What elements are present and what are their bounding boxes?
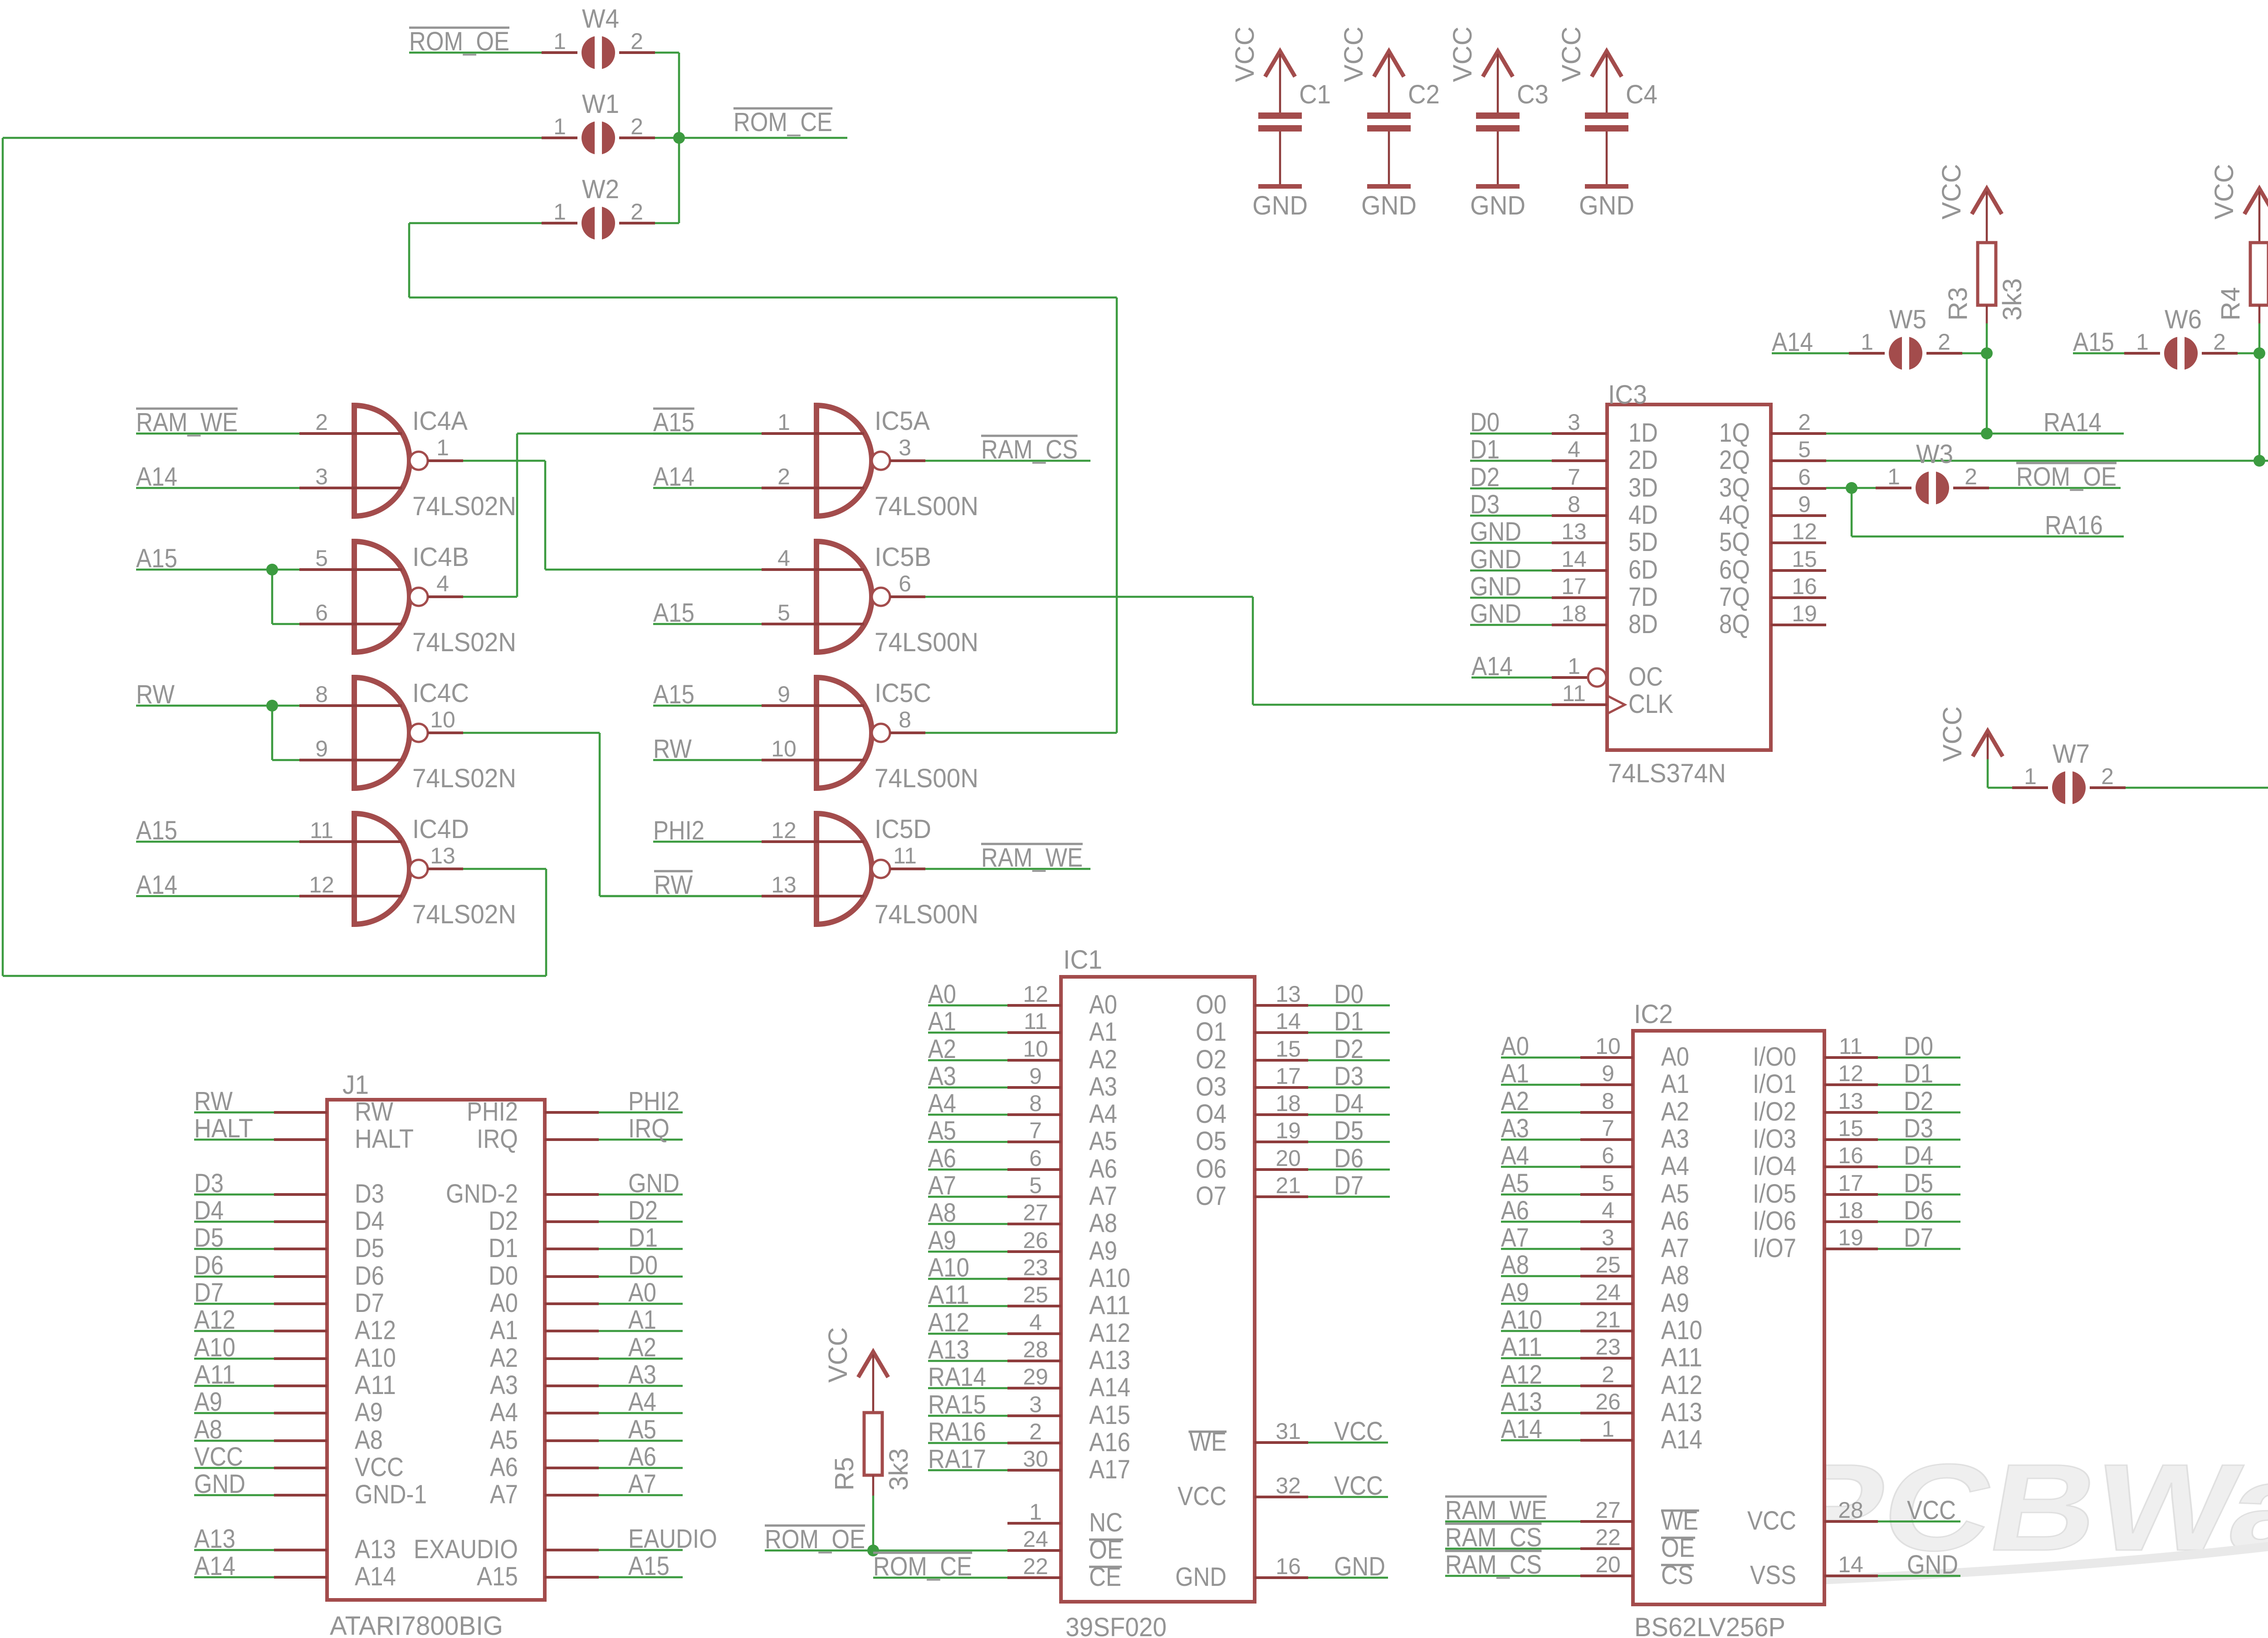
svg-text:6: 6 <box>315 600 328 625</box>
svg-text:6: 6 <box>1798 464 1811 490</box>
svg-text:ATARI7800BIG: ATARI7800BIG <box>330 1611 503 1638</box>
svg-text:7: 7 <box>1029 1118 1042 1143</box>
svg-text:VCC: VCC <box>1339 27 1369 82</box>
svg-text:2: 2 <box>1798 409 1811 435</box>
svg-text:15: 15 <box>1792 546 1817 572</box>
svg-text:GND: GND <box>628 1169 679 1198</box>
svg-text:A5: A5 <box>1089 1126 1117 1156</box>
svg-text:D0: D0 <box>628 1251 658 1280</box>
svg-text:4: 4 <box>436 571 449 596</box>
svg-text:26: 26 <box>1595 1389 1621 1414</box>
svg-text:I/O3: I/O3 <box>1753 1124 1796 1154</box>
svg-text:VCC: VCC <box>1907 1496 1956 1525</box>
svg-text:1: 1 <box>1861 329 1873 355</box>
svg-text:A3: A3 <box>490 1370 518 1400</box>
svg-text:IC5C: IC5C <box>875 678 931 708</box>
svg-text:9: 9 <box>777 682 790 707</box>
svg-text:16: 16 <box>1792 574 1817 599</box>
svg-text:9: 9 <box>1798 492 1811 517</box>
svg-text:74LS00N: 74LS00N <box>875 492 978 521</box>
svg-text:24: 24 <box>1595 1280 1621 1305</box>
svg-text:W3: W3 <box>1916 439 1953 469</box>
svg-text:I/O1: I/O1 <box>1753 1069 1796 1099</box>
svg-text:C1: C1 <box>1299 80 1331 109</box>
svg-text:A13: A13 <box>1089 1345 1130 1375</box>
svg-text:3: 3 <box>899 435 911 460</box>
svg-text:3: 3 <box>1602 1225 1614 1250</box>
svg-text:A0: A0 <box>1089 990 1117 1019</box>
svg-text:BS62LV256P: BS62LV256P <box>1634 1613 1785 1638</box>
svg-text:A1: A1 <box>1089 1017 1117 1047</box>
svg-text:3D: 3D <box>1628 473 1658 502</box>
svg-text:A13: A13 <box>1661 1398 1702 1427</box>
svg-text:15: 15 <box>1276 1036 1301 1062</box>
svg-text:A10: A10 <box>1089 1263 1130 1293</box>
svg-text:13: 13 <box>771 872 797 897</box>
svg-text:VCC: VCC <box>1230 27 1260 82</box>
svg-text:A11: A11 <box>1661 1343 1702 1372</box>
svg-text:D0: D0 <box>489 1261 518 1291</box>
svg-text:D3: D3 <box>355 1179 384 1209</box>
svg-text:A15: A15 <box>1089 1400 1130 1430</box>
svg-text:A15: A15 <box>628 1551 670 1581</box>
svg-text:D4: D4 <box>1334 1089 1364 1118</box>
svg-text:5: 5 <box>1602 1170 1614 1196</box>
svg-text:I/O2: I/O2 <box>1753 1097 1796 1126</box>
svg-text:1: 1 <box>1568 653 1580 679</box>
svg-text:IC4D: IC4D <box>412 814 469 844</box>
svg-text:1Q: 1Q <box>1719 418 1750 448</box>
svg-text:18: 18 <box>1276 1091 1301 1116</box>
svg-text:W5: W5 <box>1889 305 1926 334</box>
svg-text:A17: A17 <box>1089 1455 1130 1484</box>
svg-text:10: 10 <box>771 736 797 761</box>
svg-text:GND: GND <box>1470 191 1525 220</box>
svg-text:HALT: HALT <box>355 1124 414 1154</box>
svg-text:1: 1 <box>553 199 566 224</box>
svg-text:A13: A13 <box>355 1535 396 1564</box>
svg-text:A6: A6 <box>628 1442 656 1472</box>
svg-text:2: 2 <box>1938 329 1950 355</box>
svg-text:IC1: IC1 <box>1063 945 1102 975</box>
svg-text:VCC: VCC <box>1448 27 1477 82</box>
svg-text:8Q: 8Q <box>1719 609 1750 639</box>
svg-text:32: 32 <box>1276 1473 1301 1498</box>
svg-text:EXAUDIO: EXAUDIO <box>414 1535 518 1564</box>
svg-text:O0: O0 <box>1196 990 1227 1019</box>
svg-text:A3: A3 <box>628 1360 656 1389</box>
svg-text:D1: D1 <box>1904 1059 1933 1088</box>
svg-text:1: 1 <box>436 435 449 460</box>
svg-text:8: 8 <box>315 682 328 707</box>
svg-text:A4: A4 <box>490 1398 518 1427</box>
svg-text:VCC: VCC <box>823 1327 853 1383</box>
svg-text:CLK: CLK <box>1628 689 1673 719</box>
svg-text:A14: A14 <box>355 1562 396 1591</box>
svg-text:VCC: VCC <box>1334 1417 1383 1446</box>
svg-text:GND: GND <box>1361 191 1417 220</box>
svg-text:11: 11 <box>1562 681 1586 706</box>
svg-text:C3: C3 <box>1517 80 1549 109</box>
svg-text:D1: D1 <box>628 1223 658 1253</box>
svg-text:3Q: 3Q <box>1719 473 1750 502</box>
svg-text:A2: A2 <box>490 1343 518 1373</box>
svg-text:23: 23 <box>1595 1334 1621 1360</box>
svg-text:GND: GND <box>1252 191 1308 220</box>
svg-text:3k3: 3k3 <box>1998 278 2027 321</box>
svg-text:A1: A1 <box>1661 1069 1689 1099</box>
svg-text:30: 30 <box>1023 1446 1048 1472</box>
svg-text:1D: 1D <box>1628 418 1658 448</box>
svg-text:D6: D6 <box>1334 1144 1364 1173</box>
svg-text:O5: O5 <box>1196 1126 1227 1156</box>
svg-text:2: 2 <box>631 199 643 224</box>
svg-text:A10: A10 <box>1661 1316 1702 1345</box>
svg-text:VCC: VCC <box>1557 27 1586 82</box>
svg-text:1: 1 <box>1887 464 1900 489</box>
svg-text:13: 13 <box>1276 981 1301 1007</box>
svg-text:4: 4 <box>1602 1198 1614 1223</box>
svg-text:A2: A2 <box>1089 1045 1117 1074</box>
svg-text:D7: D7 <box>1334 1171 1364 1200</box>
svg-text:28: 28 <box>1838 1497 1863 1523</box>
svg-text:19: 19 <box>1792 601 1817 626</box>
svg-text:VCC: VCC <box>355 1453 404 1482</box>
svg-text:17: 17 <box>1561 574 1587 599</box>
svg-text:W6: W6 <box>2165 305 2202 334</box>
svg-text:O6: O6 <box>1196 1154 1227 1184</box>
svg-text:4Q: 4Q <box>1719 500 1750 530</box>
svg-text:21: 21 <box>1595 1307 1621 1332</box>
svg-text:IC4A: IC4A <box>412 406 468 436</box>
svg-text:A3: A3 <box>1089 1072 1117 1102</box>
svg-text:74LS02N: 74LS02N <box>412 764 516 793</box>
svg-text:25: 25 <box>1023 1282 1048 1307</box>
svg-text:27: 27 <box>1595 1497 1621 1523</box>
svg-text:RA16: RA16 <box>2045 511 2103 540</box>
svg-text:VCC: VCC <box>2209 164 2239 219</box>
svg-text:17: 17 <box>1838 1170 1863 1196</box>
svg-text:A5: A5 <box>628 1415 656 1444</box>
svg-text:5: 5 <box>1029 1173 1042 1198</box>
svg-text:28: 28 <box>1023 1337 1048 1362</box>
svg-text:19: 19 <box>1276 1118 1301 1143</box>
svg-text:12: 12 <box>771 818 797 843</box>
svg-text:19: 19 <box>1838 1225 1863 1250</box>
svg-text:3: 3 <box>1568 409 1580 435</box>
svg-text:O4: O4 <box>1196 1099 1227 1129</box>
svg-text:14: 14 <box>1561 546 1587 572</box>
svg-text:6: 6 <box>1602 1143 1614 1168</box>
svg-text:GND-2: GND-2 <box>446 1179 518 1209</box>
svg-text:PHI2: PHI2 <box>628 1087 679 1116</box>
svg-text:RAM_CS: RAM_CS <box>981 435 1078 464</box>
svg-text:25: 25 <box>1595 1252 1621 1277</box>
svg-text:18: 18 <box>1838 1198 1863 1223</box>
svg-text:O1: O1 <box>1196 1017 1227 1047</box>
svg-text:J1: J1 <box>342 1070 369 1100</box>
svg-text:I/O5: I/O5 <box>1753 1179 1796 1209</box>
svg-text:D3: D3 <box>1904 1114 1933 1143</box>
svg-text:2: 2 <box>1029 1419 1042 1444</box>
svg-text:A6: A6 <box>1661 1206 1689 1236</box>
svg-text:R4: R4 <box>2216 287 2245 321</box>
svg-text:A0: A0 <box>628 1278 656 1307</box>
svg-text:A4: A4 <box>1089 1099 1117 1129</box>
svg-text:IC5B: IC5B <box>875 542 931 572</box>
svg-text:D2: D2 <box>1904 1087 1933 1116</box>
svg-text:74LS00N: 74LS00N <box>875 628 978 657</box>
svg-text:R3: R3 <box>1943 287 1973 321</box>
svg-text:GND: GND <box>1907 1550 1958 1579</box>
svg-text:13: 13 <box>1561 519 1587 544</box>
svg-text:74LS02N: 74LS02N <box>412 900 516 929</box>
svg-text:A9: A9 <box>1661 1288 1689 1318</box>
svg-text:7D: 7D <box>1628 582 1658 612</box>
svg-text:A1: A1 <box>628 1305 656 1335</box>
svg-text:VSS: VSS <box>1750 1560 1796 1590</box>
svg-text:11: 11 <box>1024 1009 1047 1034</box>
svg-text:14: 14 <box>1838 1552 1863 1577</box>
svg-text:1: 1 <box>2024 764 2037 789</box>
svg-text:74LS00N: 74LS00N <box>875 900 978 929</box>
svg-text:ROM_CE: ROM_CE <box>733 107 832 137</box>
svg-text:8: 8 <box>1602 1088 1614 1114</box>
svg-text:20: 20 <box>1595 1552 1621 1577</box>
svg-text:I/O4: I/O4 <box>1753 1151 1796 1181</box>
svg-text:D7: D7 <box>1904 1223 1933 1253</box>
svg-text:D2: D2 <box>489 1206 518 1236</box>
svg-text:20: 20 <box>1276 1146 1301 1171</box>
svg-text:1: 1 <box>2136 329 2149 355</box>
svg-text:A5: A5 <box>490 1425 518 1455</box>
svg-text:GND: GND <box>1334 1552 1385 1581</box>
svg-text:74LS02N: 74LS02N <box>412 492 516 521</box>
svg-text:D6: D6 <box>1904 1196 1933 1225</box>
svg-text:NC: NC <box>1089 1508 1123 1537</box>
svg-text:10: 10 <box>430 707 455 732</box>
svg-text:D6: D6 <box>355 1261 384 1291</box>
svg-text:A7: A7 <box>628 1469 656 1499</box>
svg-text:3: 3 <box>315 464 328 489</box>
svg-text:2: 2 <box>631 114 643 139</box>
svg-text:1: 1 <box>1602 1416 1614 1442</box>
svg-text:A14: A14 <box>1661 1425 1702 1454</box>
svg-text:22: 22 <box>1595 1525 1621 1550</box>
svg-text:A9: A9 <box>1089 1236 1117 1266</box>
svg-text:2Q: 2Q <box>1719 445 1750 475</box>
svg-text:A7: A7 <box>1661 1233 1689 1263</box>
svg-text:2: 2 <box>2101 764 2114 789</box>
svg-text:1: 1 <box>553 29 566 54</box>
svg-text:GND: GND <box>1175 1562 1227 1592</box>
svg-text:12: 12 <box>309 872 334 897</box>
svg-text:W1: W1 <box>582 89 619 119</box>
svg-text:VCC: VCC <box>1334 1471 1383 1501</box>
svg-text:6D: 6D <box>1628 555 1658 585</box>
svg-text:8: 8 <box>1029 1091 1042 1116</box>
svg-text:A7: A7 <box>1089 1181 1117 1211</box>
svg-text:D1: D1 <box>489 1233 518 1263</box>
svg-text:16: 16 <box>1276 1554 1301 1579</box>
svg-text:4D: 4D <box>1628 500 1658 530</box>
svg-text:1: 1 <box>777 409 790 435</box>
svg-text:A16: A16 <box>1089 1428 1130 1457</box>
svg-text:A10: A10 <box>355 1343 396 1373</box>
svg-text:4: 4 <box>1029 1310 1042 1335</box>
svg-text:A0: A0 <box>490 1288 518 1318</box>
svg-text:IRQ: IRQ <box>477 1124 518 1154</box>
svg-text:A3: A3 <box>1661 1124 1689 1154</box>
svg-text:VCC: VCC <box>1938 707 1967 762</box>
svg-text:A4: A4 <box>1661 1151 1689 1181</box>
svg-text:26: 26 <box>1023 1228 1048 1253</box>
svg-text:2: 2 <box>1965 464 1977 489</box>
svg-text:A12: A12 <box>1089 1318 1130 1348</box>
svg-text:O2: O2 <box>1196 1045 1227 1074</box>
svg-text:31: 31 <box>1276 1419 1301 1444</box>
svg-text:14: 14 <box>1276 1009 1301 1034</box>
svg-text:D2: D2 <box>628 1196 658 1225</box>
svg-text:A14: A14 <box>1089 1373 1130 1402</box>
svg-text:23: 23 <box>1023 1255 1048 1280</box>
svg-text:22: 22 <box>1023 1554 1048 1579</box>
svg-text:17: 17 <box>1276 1063 1301 1089</box>
svg-text:A0: A0 <box>1661 1042 1689 1072</box>
svg-text:18: 18 <box>1561 601 1587 626</box>
svg-text:10: 10 <box>1023 1036 1048 1062</box>
svg-text:5: 5 <box>315 546 328 571</box>
svg-text:W4: W4 <box>582 4 619 34</box>
svg-text:D0: D0 <box>1904 1032 1933 1061</box>
svg-text:8D: 8D <box>1628 609 1658 639</box>
svg-text:12: 12 <box>1792 519 1817 544</box>
svg-text:5: 5 <box>777 600 790 625</box>
svg-text:21: 21 <box>1276 1173 1301 1198</box>
svg-text:W2: W2 <box>582 175 619 204</box>
svg-text:R5: R5 <box>830 1457 859 1491</box>
svg-text:6: 6 <box>899 571 911 596</box>
svg-text:IC4B: IC4B <box>412 542 469 572</box>
svg-text:74LS374N: 74LS374N <box>1608 759 1726 788</box>
svg-text:27: 27 <box>1023 1200 1048 1225</box>
svg-text:A7: A7 <box>490 1480 518 1509</box>
svg-text:6Q: 6Q <box>1719 555 1750 585</box>
svg-text:D0: D0 <box>1334 980 1364 1009</box>
svg-text:A15: A15 <box>477 1562 518 1591</box>
svg-text:A8: A8 <box>355 1425 383 1455</box>
svg-text:15: 15 <box>1838 1116 1863 1141</box>
svg-text:12: 12 <box>1838 1061 1863 1086</box>
svg-text:1: 1 <box>553 114 566 139</box>
svg-text:I/O7: I/O7 <box>1753 1233 1796 1263</box>
svg-text:D1: D1 <box>1334 1007 1364 1036</box>
svg-text:10: 10 <box>1595 1033 1621 1059</box>
svg-text:9: 9 <box>1602 1061 1614 1086</box>
svg-text:W7: W7 <box>2053 739 2090 769</box>
svg-text:IC2: IC2 <box>1634 999 1673 1029</box>
svg-text:A8: A8 <box>1089 1209 1117 1238</box>
svg-text:7: 7 <box>1568 464 1580 490</box>
svg-text:D3: D3 <box>1334 1062 1364 1091</box>
svg-text:A4: A4 <box>628 1387 656 1417</box>
svg-text:2: 2 <box>1602 1362 1614 1387</box>
svg-text:A6: A6 <box>1089 1154 1117 1184</box>
svg-text:5D: 5D <box>1628 527 1658 557</box>
svg-text:9: 9 <box>1029 1063 1042 1089</box>
svg-text:VCC: VCC <box>1747 1506 1796 1536</box>
svg-text:D4: D4 <box>1904 1141 1933 1170</box>
svg-text:4: 4 <box>777 546 790 571</box>
svg-text:D5: D5 <box>1904 1169 1933 1198</box>
svg-text:A6: A6 <box>490 1453 518 1482</box>
svg-text:IC5D: IC5D <box>875 814 931 844</box>
svg-text:11: 11 <box>893 843 917 868</box>
svg-text:RW: RW <box>355 1097 393 1126</box>
svg-text:OC: OC <box>1628 662 1663 692</box>
svg-text:D2: D2 <box>1334 1034 1364 1064</box>
svg-text:O7: O7 <box>1196 1181 1227 1211</box>
svg-text:PHI2: PHI2 <box>467 1097 518 1126</box>
svg-text:13: 13 <box>430 843 455 868</box>
svg-text:I/O0: I/O0 <box>1753 1042 1796 1072</box>
svg-text:2: 2 <box>631 29 643 54</box>
svg-text:1: 1 <box>1029 1499 1042 1525</box>
svg-text:C2: C2 <box>1408 80 1440 109</box>
svg-text:IRQ: IRQ <box>628 1114 670 1143</box>
svg-text:A9: A9 <box>355 1398 383 1427</box>
svg-text:74LS02N: 74LS02N <box>412 628 516 657</box>
svg-text:D5: D5 <box>355 1233 384 1263</box>
svg-text:RAM_WE: RAM_WE <box>981 843 1083 873</box>
svg-text:A11: A11 <box>1089 1291 1130 1320</box>
svg-text:I/O6: I/O6 <box>1753 1206 1796 1236</box>
svg-text:VCC: VCC <box>1937 164 1966 219</box>
svg-text:3: 3 <box>1029 1392 1042 1417</box>
svg-text:A1: A1 <box>490 1316 518 1345</box>
svg-text:5Q: 5Q <box>1719 527 1750 557</box>
svg-text:IC3: IC3 <box>1608 380 1647 409</box>
svg-text:8: 8 <box>1568 492 1580 517</box>
svg-text:5: 5 <box>1798 437 1811 462</box>
svg-text:A11: A11 <box>355 1370 396 1400</box>
svg-text:GND-1: GND-1 <box>355 1480 427 1509</box>
svg-text:ROM_OE: ROM_OE <box>2016 462 2116 492</box>
svg-text:7: 7 <box>1602 1116 1614 1141</box>
svg-text:12: 12 <box>1023 981 1048 1007</box>
svg-text:11: 11 <box>310 818 333 843</box>
svg-text:2D: 2D <box>1628 445 1658 475</box>
svg-text:IC5A: IC5A <box>875 406 930 436</box>
svg-text:A12: A12 <box>1661 1370 1702 1400</box>
svg-text:9: 9 <box>315 736 328 761</box>
svg-text:39SF020: 39SF020 <box>1066 1613 1167 1638</box>
svg-text:O3: O3 <box>1196 1072 1227 1102</box>
svg-text:VCC: VCC <box>1178 1482 1227 1511</box>
svg-text:GND: GND <box>1579 191 1634 220</box>
svg-text:11: 11 <box>1839 1033 1862 1059</box>
svg-text:6: 6 <box>1029 1146 1042 1171</box>
svg-text:74LS00N: 74LS00N <box>875 764 978 793</box>
svg-text:A5: A5 <box>1661 1179 1689 1209</box>
svg-text:29: 29 <box>1023 1364 1048 1389</box>
svg-text:2: 2 <box>315 409 328 435</box>
svg-text:13: 13 <box>1838 1088 1863 1114</box>
svg-text:16: 16 <box>1838 1143 1863 1168</box>
svg-text:A2: A2 <box>1661 1097 1689 1126</box>
svg-text:4: 4 <box>1568 437 1580 462</box>
svg-text:7Q: 7Q <box>1719 582 1750 612</box>
